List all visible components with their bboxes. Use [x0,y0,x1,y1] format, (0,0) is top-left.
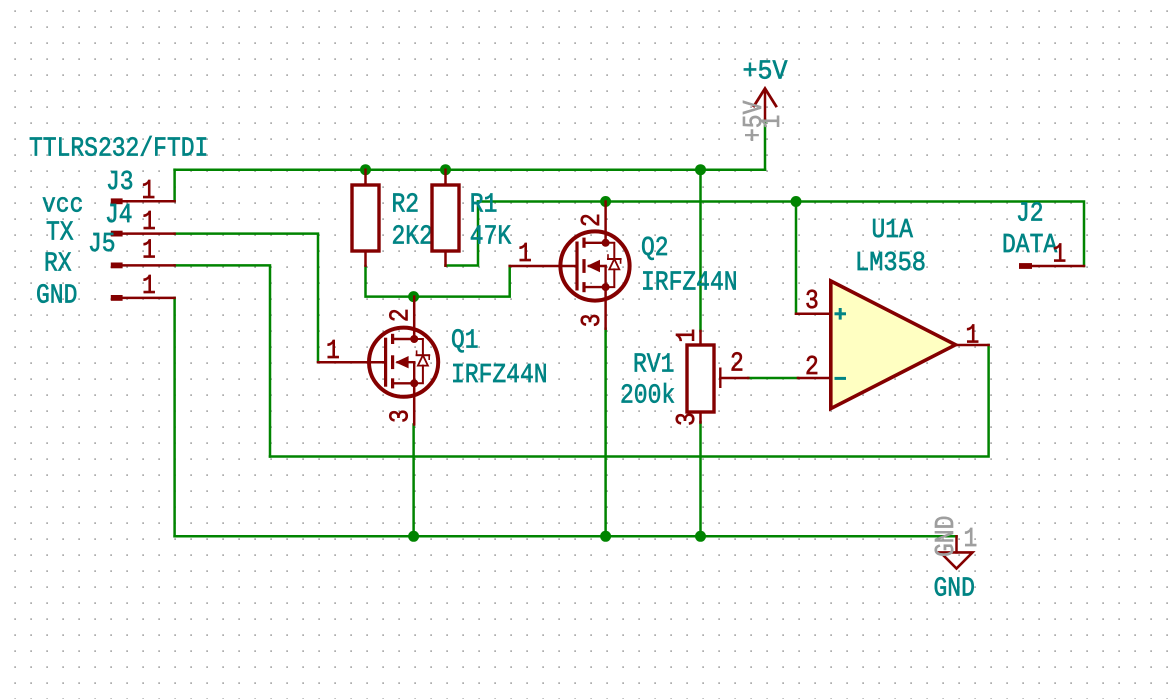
op-amp U1A LM358 [796,214,989,408]
svg-text:1: 1 [964,523,978,554]
wire DATA net horizontal [478,202,1084,267]
wire RV1 wiper to opamp inverting [748,377,798,380]
connector J4 (TX) [105,199,175,237]
junction R1 top [440,164,451,175]
svg-text:47K: 47K [470,221,512,252]
junction Q2 source GND [600,531,611,542]
svg-text:3: 3 [385,409,416,423]
wire RV1 bottom to GND rail [699,422,702,536]
svg-text:1: 1 [142,206,156,237]
connector GND pin [111,270,175,301]
wire RV1 top from +5V rail [699,170,702,331]
svg-text:IRFZ44N: IRFZ44N [451,359,548,390]
svg-text:TTLRS232/FTDI: TTLRS232/FTDI [29,133,208,164]
wire Q2 source to GND rail [604,329,607,537]
svg-text:2: 2 [576,213,607,227]
wire opamp noninverting drop [795,202,798,314]
transistor Q2 IRFZ44N [510,202,738,329]
power symbol GND [930,516,977,605]
svg-text:1: 1 [966,320,980,351]
svg-text:2K2: 2K2 [392,221,433,252]
svg-text:2: 2 [730,348,744,379]
junction opamp noninverting [791,196,802,207]
wire TX to Q1 gate [175,234,318,362]
potentiometer RV1 200k [620,329,748,426]
wire feedback bottom from opamp output [270,345,989,457]
wire RX to feedback [175,265,270,456]
connector J2 DATA [1002,198,1084,270]
wire +5V symbol stem [764,120,767,170]
svg-text:IRFZ44N: IRFZ44N [641,267,738,298]
svg-text:vcc: vcc [42,189,83,220]
svg-text:RV1: RV1 [633,349,674,380]
svg-text:2: 2 [805,351,819,382]
junction Q1 source GND [408,531,419,542]
svg-text:1: 1 [326,335,340,366]
svg-text:RX: RX [44,248,72,279]
wire vcc J3 pin to +5V rail [173,170,176,202]
svg-text:R1: R1 [470,189,498,220]
svg-text:U1A: U1A [872,214,914,245]
power symbol +5V [738,56,787,142]
svg-text:Q1: Q1 [451,325,479,356]
junction Q2 drain DATA [600,196,611,207]
svg-text:1: 1 [142,235,156,266]
wire R2 bottom to node [366,266,510,297]
svg-text:1: 1 [518,238,532,269]
svg-text:GND: GND [934,573,975,604]
svg-text:1: 1 [142,175,156,206]
svg-text:+5V: +5V [743,56,788,87]
connector J5 (RX) [88,228,175,268]
svg-text:3: 3 [805,285,819,316]
svg-text:2: 2 [385,308,416,322]
wire +5V top rail [175,168,765,171]
svg-text:R2: R2 [392,189,420,220]
svg-text:GND: GND [36,280,77,311]
svg-text:GND: GND [930,516,961,557]
resistor R2 2K2 [352,170,433,266]
svg-text:Q2: Q2 [641,232,669,263]
junction RV1 top [695,164,706,175]
svg-text:3: 3 [671,412,702,426]
svg-text:TX: TX [46,217,74,248]
svg-text:1: 1 [756,115,787,129]
wire Q1 source to GND rail [412,425,415,537]
junction Q1 drain node [408,291,419,302]
svg-text:J2: J2 [1016,198,1044,229]
connector J3 (vcc) [106,166,175,206]
resistor R1 47K [432,170,512,266]
svg-text:1: 1 [1053,239,1067,270]
svg-text:J3: J3 [106,166,134,197]
svg-text:DATA: DATA [1002,229,1058,260]
svg-text:LM358: LM358 [855,247,926,278]
svg-text:3: 3 [576,313,607,327]
svg-text:1: 1 [671,329,702,343]
transistor Q1 IRFZ44N [318,297,548,425]
wire GND bottom rail [175,535,957,538]
junction R2 top [360,164,371,175]
svg-text:J4: J4 [105,199,133,230]
junction RV1 GND [695,531,706,542]
svg-text:J5: J5 [88,228,116,259]
svg-text:200k: 200k [620,380,675,411]
svg-text:1: 1 [142,270,156,301]
wire GND pin drop [173,298,176,536]
wire R1 bottom jog to DATA net [446,202,479,266]
